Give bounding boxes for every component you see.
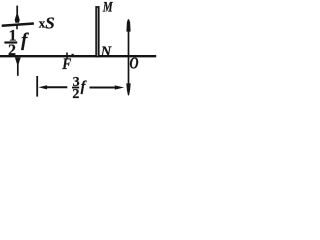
svg-text:S: S: [45, 14, 54, 33]
svg-text:f: f: [81, 79, 88, 95]
svg-text:O: O: [130, 55, 139, 73]
object shelf line: [2, 24, 34, 26]
right dimension arrow: [90, 85, 125, 89]
label x S (point S): [39, 14, 55, 33]
svg-text:f: f: [21, 31, 29, 51]
svg-text:2: 2: [72, 87, 79, 102]
double-headed vertical arrow through O: [126, 19, 130, 95]
left dimension tick: [36, 76, 38, 97]
svg-text:F: F: [61, 56, 71, 73]
optical axis: [0, 55, 156, 57]
focal point tick: [66, 53, 68, 60]
up arrow to axis (half-f dimension): [15, 58, 21, 76]
svg-text:M: M: [102, 0, 113, 15]
left dimension arrow: [38, 85, 67, 89]
label 3/2 f: [72, 75, 88, 102]
svg-text:2: 2: [8, 42, 16, 59]
plane mirror MN: [96, 7, 99, 57]
down arrow above shelf: [15, 6, 20, 23]
small scan tick above axis right of F: [71, 54, 73, 56]
svg-text:N: N: [100, 44, 112, 60]
label 1/2 f: [4, 28, 29, 59]
tick below shelf: [16, 26, 18, 30]
